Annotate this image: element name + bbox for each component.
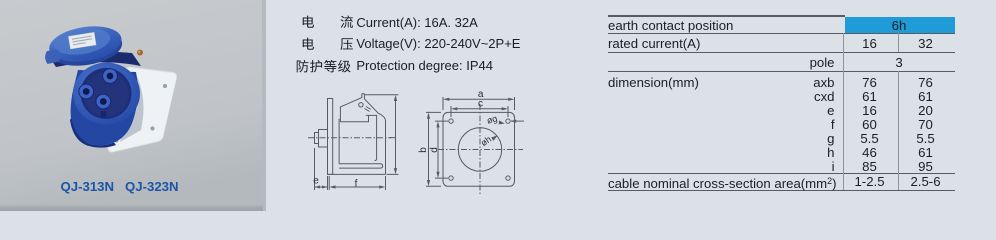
blue header cell xyxy=(845,17,955,33)
socket holes xyxy=(79,69,118,109)
photo panel xyxy=(0,0,266,211)
middle spec text (latin) xyxy=(356,16,477,29)
svg-text:øg: øg xyxy=(486,113,499,125)
g leader xyxy=(511,120,524,122)
f dimension xyxy=(329,176,385,190)
horizontal lines xyxy=(608,15,845,16)
table xyxy=(608,0,955,211)
svg-text:b: b xyxy=(418,147,429,153)
svg-text:øh: øh xyxy=(479,134,493,148)
model text xyxy=(61,179,179,194)
face recess xyxy=(81,68,132,119)
d dim xyxy=(435,121,448,178)
texts xyxy=(608,19,733,32)
e dimension xyxy=(315,148,328,190)
side view: flange plate xyxy=(328,99,333,175)
front view xyxy=(426,97,524,196)
svg-text:f: f xyxy=(355,179,358,190)
bottom shadow strip xyxy=(0,203,263,211)
svg-text:d: d xyxy=(429,147,440,153)
i dimension xyxy=(364,95,398,175)
technical drawings xyxy=(300,85,620,211)
side view: rear gland xyxy=(315,133,319,144)
flange plate xyxy=(94,67,177,153)
label on lid xyxy=(68,32,96,49)
hinge pin xyxy=(137,50,143,56)
side view centerline xyxy=(308,137,391,139)
shadow of body on flange xyxy=(120,72,143,142)
side view: body xyxy=(338,119,340,164)
vertical lines xyxy=(843,33,844,190)
lid xyxy=(47,22,125,71)
svg-text:c: c xyxy=(478,98,483,109)
socket body cup xyxy=(71,70,139,145)
dark area behind lid xyxy=(50,52,141,67)
svg-text:i: i xyxy=(387,137,397,139)
b dim xyxy=(426,112,441,186)
svg-text:e: e xyxy=(313,176,319,187)
arrows side view xyxy=(315,95,398,189)
body face ring xyxy=(73,63,140,125)
c dim xyxy=(451,106,508,117)
a dim xyxy=(443,97,515,110)
latch tab xyxy=(45,50,60,65)
photo background xyxy=(0,0,266,211)
